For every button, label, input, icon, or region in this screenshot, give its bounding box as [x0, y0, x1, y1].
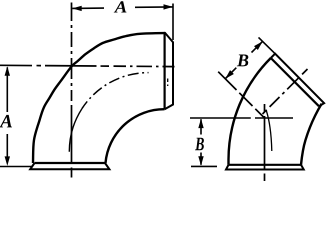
dimension B (vertical): bottom arrowhead: [198, 156, 203, 166]
label A (left dimension): [0, 115, 12, 127]
90-degree elbow: vertical centerline of bottom end (dash-dot): [71, 3, 73, 178]
label A (top dimension): [114, 1, 127, 12]
dimension A (left): top arrowhead: [5, 66, 10, 76]
dimension A (left): bottom arrowhead: [5, 156, 10, 166]
90-degree elbow: right face edge: [164, 32, 166, 109]
45-degree elbow: 45-degree axis centerline (dash-dot): [263, 69, 308, 114]
dimension B (diagonal): dimension line: [225, 41, 262, 78]
dimension A (top): dimension line: [72, 7, 173, 8]
dimension A (top): right extension line: [172, 4, 174, 41]
45-degree elbow: right outline arc: [301, 104, 322, 165]
90-degree elbow: outer arc: [33, 33, 165, 163]
dimension A (top): left arrowhead: [72, 6, 82, 11]
45-degree elbow: bottom face edge: [229, 164, 302, 166]
45-degree elbow: left outline arc: [229, 58, 271, 165]
45-degree elbow: corner extension line for diagonal dimension (dash-dot): [218, 72, 264, 118]
dimension B (vertical): dimension line: [200, 119, 202, 165]
90-degree elbow: right bevel band: [165, 32, 173, 109]
90-degree elbow: dash-dot bend axis arc: [69, 109, 82, 152]
90-degree elbow: bottom bevel band: [30, 163, 109, 169]
dimension A (top): right arrowhead: [164, 4, 174, 9]
45-degree elbow: vertical centerline of bottom end (dash-dot): [264, 104, 266, 181]
90-degree elbow: small hidden dashes on right face: [167, 79, 169, 87]
dimension B (vertical): top arrowhead: [198, 119, 203, 129]
dimension B (vertical): bottom extension line: [191, 165, 217, 167]
90-degree elbow: horizontal centerline of side end (dash-dot): [0, 65, 175, 66]
dimension B (diagonal): face extension line: [259, 37, 276, 53]
45-degree elbow: upper face edge: [271, 58, 319, 106]
label B (diagonal dimension): [237, 55, 249, 67]
45-degree elbow: interior bend seam curve: [266, 111, 272, 152]
45-degree elbow: upper bevel band: [271, 54, 324, 106]
dimension A (left): bottom extension line: [0, 166, 33, 168]
45-degree elbow: horizontal extension line through corner point: [190, 117, 293, 119]
dimension B (diagonal): upper-right arrowhead: [254, 41, 263, 50]
label B (vertical dimension): [195, 138, 204, 150]
45-degree elbow: bottom bevel band: [226, 165, 304, 170]
dimension B (diagonal): lower-left arrowhead: [225, 70, 234, 79]
90-degree elbow: bottom face edge: [35, 162, 106, 164]
dimension A (left): dimension line: [6, 67, 8, 159]
90-degree elbow: inner arc: [106, 109, 165, 163]
